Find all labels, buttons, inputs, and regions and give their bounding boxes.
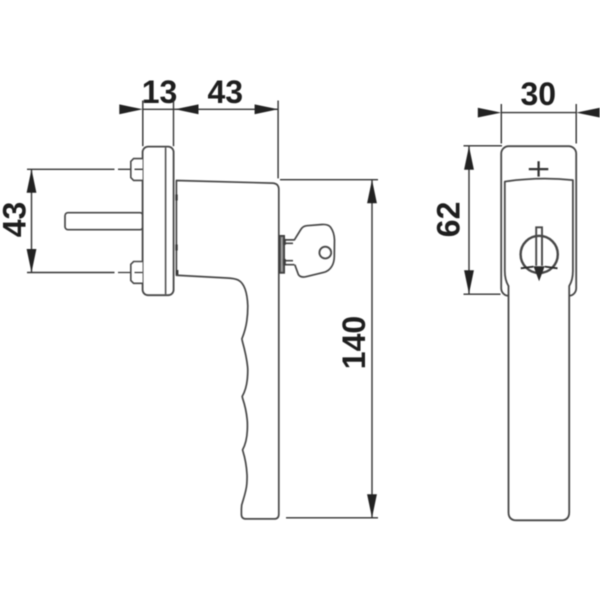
- extension line bottom boss center: [27, 272, 115, 274]
- key slot arrow tip: [534, 266, 545, 281]
- extension line rosette top: [464, 145, 503, 147]
- handle grip front view (white fill covers rosette middle): [505, 179, 573, 521]
- left dimension line: [31, 169, 33, 272]
- top dimension line: [143, 108, 278, 110]
- extension line neck right: [277, 101, 279, 179]
- arrow down: [367, 494, 377, 518]
- rosette plate (side view): [143, 147, 174, 296]
- spindle (square shaft): [65, 213, 143, 230]
- svg-text:13: 13: [142, 74, 178, 110]
- screw boss top: [131, 159, 143, 181]
- svg-text:30: 30: [521, 76, 557, 112]
- dashed centerline top boss: [118, 168, 143, 170]
- dashed centerline bottom boss: [118, 272, 143, 274]
- arrow left outside pointing right: [478, 108, 502, 118]
- lock cylinder circle: [521, 236, 558, 273]
- extension line rosette right: [575, 104, 577, 144]
- screw boss bottom: [131, 262, 143, 284]
- arrow down: [464, 270, 474, 294]
- svg-text:62: 62: [431, 202, 467, 238]
- arrow 43 left pointing left: [175, 104, 199, 114]
- extension line rosette bottom: [464, 293, 501, 295]
- arrow up: [464, 146, 474, 170]
- plate edge highlight line: [165, 148, 167, 295]
- svg-text:140: 140: [336, 316, 372, 369]
- key slot: [536, 227, 542, 265]
- 140 dimension line: [371, 180, 373, 518]
- arrow 43 right pointing right: [255, 104, 279, 114]
- extension line grip bottom: [286, 517, 378, 519]
- 62 dimension line: [468, 146, 470, 294]
- arrow up: [27, 169, 37, 193]
- arrow cross bar: [521, 267, 558, 269]
- svg-text:43: 43: [0, 202, 33, 238]
- junction tick marks on neck: [175, 195, 177, 201]
- extension line plate right: [173, 101, 175, 147]
- key bow (head): [294, 224, 334, 277]
- extension line top boss center: [27, 168, 115, 170]
- arrow right outside pointing left: [576, 108, 600, 118]
- arrow down: [27, 249, 37, 273]
- key bow hole: [319, 247, 331, 259]
- arrow up: [367, 180, 377, 204]
- 30 dimension line: [501, 112, 576, 114]
- svg-text:43: 43: [208, 74, 244, 110]
- key shaft top prong: [284, 240, 295, 243]
- lock cylinder face (dark bar on neck right edge): [280, 236, 285, 273]
- extension line rosette left: [500, 104, 502, 144]
- rosette front (rounded rectangle): [501, 146, 576, 296]
- arrow left outside pointing right: [119, 104, 143, 114]
- screw cover plus mark: [529, 161, 549, 176]
- extension line neck top: [280, 179, 378, 181]
- extension line plate left: [142, 101, 144, 147]
- key shaft bottom prong: [284, 261, 295, 265]
- handle body outline (neck and grip, side view): [176, 181, 278, 519]
